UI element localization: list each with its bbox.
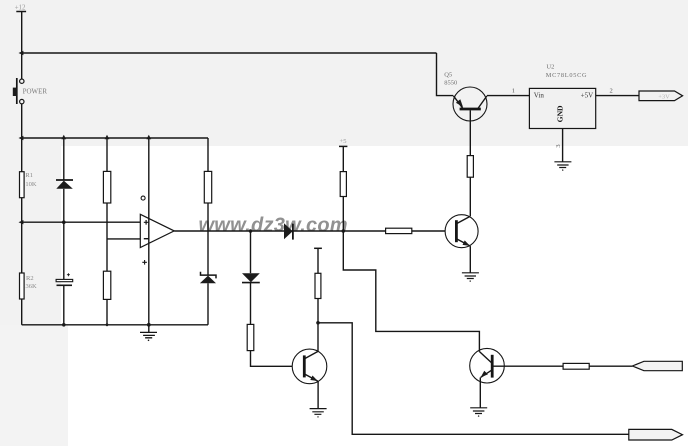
svg-text:8550: 8550 [444,80,457,87]
rail E wire middle [207,203,209,275]
junction dot output at x250 [249,229,253,233]
transistor Q2 emitter arrow [310,376,318,382]
rail E wire top [207,138,209,171]
transistor Q3 collector diagonal [456,216,470,224]
op-amp U1 triangle [140,214,174,247]
wire Q4 emitter to ground [479,378,481,408]
svg-text:36K: 36K [26,283,38,290]
svg-text:+5V: +5V [581,92,594,100]
rail A wire top [21,138,23,172]
zener D2 bar with ticks [201,272,217,279]
rail A wire middle [21,198,23,273]
svg-text:R1: R1 [25,172,33,179]
wire Q5 collector to U2 pin1 [487,95,529,97]
diode D3 cathode bar [292,224,294,240]
ground G1 bars [140,332,157,337]
switch POWER contact circle top [20,79,24,83]
port flag bottom right-pointing [629,429,683,440]
ground G2 dot [562,169,563,170]
switch POWER cap [13,88,18,96]
diode D3 series triangle [284,223,293,239]
svg-text:1: 1 [512,88,515,95]
transistor Q5 emitter diagonal [453,96,462,109]
capacitor C1 polarity mark [67,273,70,276]
wire +5 to resistor [342,146,344,171]
wire junction to bottom bus [318,323,629,435]
diode D1 triangle [56,181,73,189]
transistor Q2 base bar [303,355,306,377]
resistor R11 horizontal [563,363,589,369]
resistor R6 [247,324,254,350]
switch POWER contact circle bottom [20,99,24,103]
rail E wire bottom [207,283,209,325]
transistor Q3 base bar [455,220,458,242]
ground G1 dot [148,340,150,342]
wire output junction down and right to Q4 collector [343,231,479,352]
transistor Q5 base bar [460,108,481,111]
wire resistor to Q2 base [251,351,293,367]
resistor R8 horizontal [386,228,412,233]
resistor R3 [103,171,110,203]
background shading band top [0,0,688,146]
wire resistor to output junction [342,197,344,232]
resistor R4 [103,271,110,299]
switch POWER plunger bar [16,78,18,104]
ground G4 bars [310,409,327,415]
junction dot Q2 collector [316,321,320,325]
port +5 T-bar [339,145,347,147]
svg-text:+5: +5 [340,138,347,145]
svg-text:+3V: +3V [658,94,670,101]
ground G3 bars [462,273,479,279]
transistor Q5 circle [453,87,487,121]
svg-text:2: 2 [610,88,613,95]
svg-text:3: 3 [555,144,562,147]
resistor R9 [467,156,473,178]
wire op-amp output line [174,230,445,232]
wire down to Q5 emitter [437,53,454,96]
svg-text:POWER: POWER [23,87,48,95]
resistor R5 [204,171,211,203]
junction dot rail B at bottom bus [62,323,66,327]
regulator U2 box [529,88,595,128]
wire Q2 collector up through resistor [317,273,319,351]
rail C wire bottom [106,299,108,324]
wire Q2 emitter to ground [317,381,319,408]
wire +12 bus to right [22,52,437,54]
rail C wire top [106,138,108,171]
ground G3 dot [470,280,471,281]
wire diode chain down [250,231,252,273]
op-amp lower plus mark [142,260,147,265]
wire U2 pin2 to +3V flag [596,95,639,97]
ground G2 bars [554,162,571,168]
junction arrow up at x107 [105,135,110,139]
svg-text:GND: GND [556,105,565,122]
transistor Q2 emitter diagonal [304,374,318,381]
svg-text:www.dz3w.com: www.dz3w.com [199,214,348,236]
junction arrow up at x149 [146,135,151,139]
bottom bus of left block [22,324,208,326]
port flag left-pointing [632,361,682,370]
wire switch to top bus [21,104,23,138]
transistor Q2 circle [292,349,327,384]
transistor Q5 emitter arrow [456,99,463,107]
svg-text:Vin: Vin [534,92,545,100]
resistor R10 [315,273,321,298]
ground G4 dot [317,416,318,417]
transistor Q3 emitter arrow [463,240,471,246]
diode D1 cathode bar [56,179,73,181]
wire inverting input [107,238,140,240]
transistor Q4 circle [470,348,505,383]
wire Q3 collector up to Q5 base [469,110,471,216]
wire Q4 base to resistor [492,365,563,367]
svg-text:+12: +12 [15,3,26,11]
svg-text:U2: U2 [546,64,554,71]
diode D4 triangle [242,273,260,282]
wire +12 down to switch [21,12,23,79]
transistor Q3 circle [445,215,478,248]
ground G5 bars [470,408,487,414]
capacitor C1 bottom plate [57,284,73,286]
junction dot ground tap [147,323,151,327]
background shading left strip [0,146,61,325]
capacitor C1 top plate [56,279,73,281]
diode D4 cathode bar [242,282,260,284]
junction arrow up at x64 [61,135,66,139]
junction dot rail C at bottom bus [106,323,109,326]
zener D2 triangle [200,276,216,284]
junction arrow at noninverting tap [19,220,24,224]
svg-text:Q5: Q5 [444,71,452,78]
ground G1 stem [148,325,150,333]
transistor Q4 emitter arrow [481,371,488,378]
junction arrow at +12 bus tap [19,51,24,55]
transistor Q5 collector diagonal [478,96,487,109]
rail C wire middle [106,203,108,271]
background shading bottom-left strip [0,325,68,446]
transistor Q4 base bar [491,355,494,378]
wire noninverting input [22,221,141,223]
transistor Q4 collector diagonal [480,352,493,364]
rail B wire bottom [63,285,65,325]
junction dot at x64 noninverting line [62,220,66,224]
wire Q3 emitter to ground [469,246,471,273]
op-amp plus input mark [144,220,149,225]
junction dot output at x343 [342,229,346,233]
port +12 T-bar [16,11,26,13]
transistor Q2 collector diagonal [304,351,318,359]
port T-bar above R10 [314,247,322,249]
rail B wire top [63,138,65,180]
op-amp power bubble [141,196,145,200]
op-amp minus input mark [144,238,149,240]
wire U2 pin3 down [562,129,564,162]
resistor R1 [20,172,25,198]
svg-text:MC78L05CG: MC78L05CG [546,72,587,79]
junction arrow left end top bus [19,136,24,140]
rail D power wire through op-amp [148,138,150,325]
svg-text:10K: 10K [25,181,37,188]
ground G5 dot [478,415,479,416]
port flag +3V [639,91,683,101]
resistor R2 [20,273,25,299]
transistor Q4 emitter diagonal [481,370,493,378]
resistor R7 [340,172,346,197]
wire resistor to T port [317,248,319,273]
rail B wire middle [63,189,65,280]
wire diode to resistor [250,283,252,325]
transistor Q3 emitter diagonal [456,239,470,246]
rail A wire bottom [21,299,23,325]
wire resistor to left flag [589,365,632,367]
svg-text:R2: R2 [26,275,34,282]
top bus of left block [22,137,208,139]
